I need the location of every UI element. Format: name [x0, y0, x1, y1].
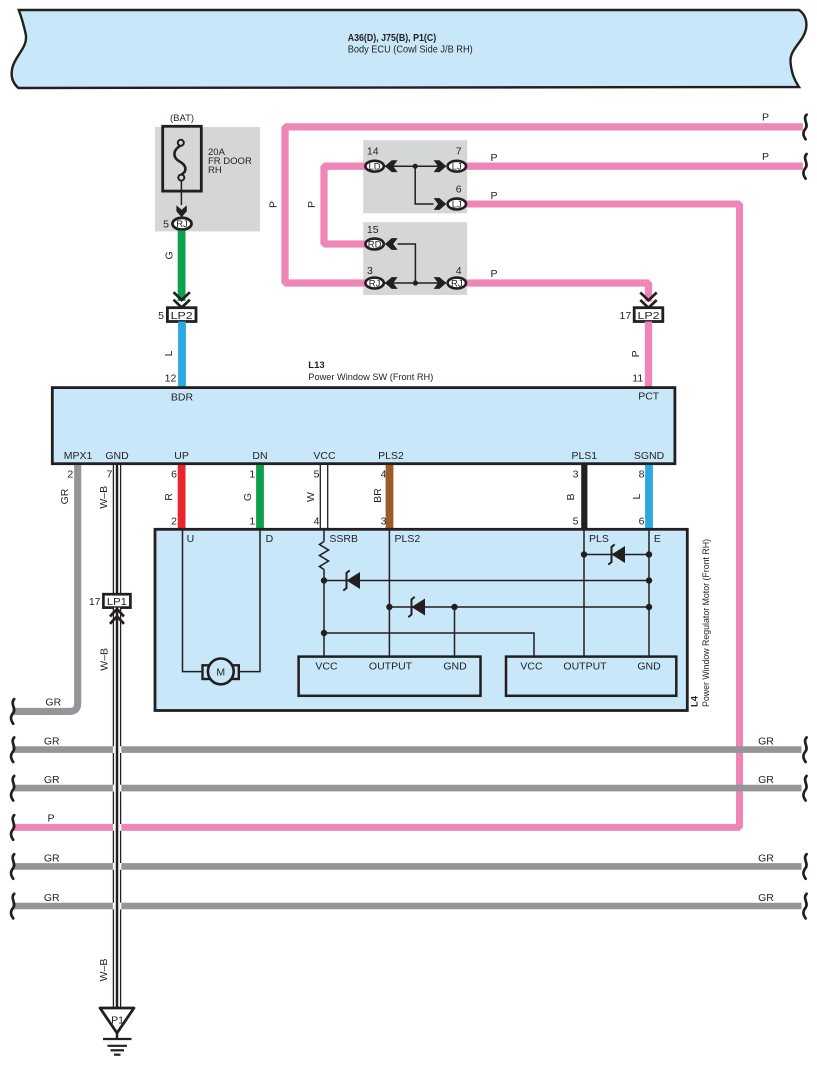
motor M [203, 659, 239, 685]
svg-text:GR: GR [44, 774, 60, 786]
link wire RD15 elbow [398, 244, 416, 283]
svg-text:GND: GND [443, 660, 467, 672]
svg-text:15: 15 [367, 224, 379, 236]
svg-text:8: 8 [639, 468, 645, 480]
svg-text:DN: DN [252, 450, 267, 462]
fuse block shading [155, 127, 260, 231]
svg-text:LJ: LJ [452, 199, 462, 210]
ECU L13 Power Window SW (Front RH) [52, 360, 675, 464]
break symbol P left [11, 815, 14, 840]
pin numbers above motor [171, 516, 645, 528]
svg-text:GR: GR [59, 488, 71, 504]
ground wire GR line 2 [13, 785, 802, 792]
wire W VCC to SSRB [320, 465, 327, 529]
connector LD pin 14 [365, 146, 383, 173]
break symbol GR3 right [803, 854, 806, 879]
svg-text:RJ: RJ [451, 278, 463, 289]
svg-text:E: E [654, 533, 661, 545]
wire PLS2 inner [388, 530, 390, 657]
svg-text:P: P [762, 111, 769, 123]
svg-text:PLS1: PLS1 [571, 450, 597, 462]
svg-text:G: G [163, 251, 175, 259]
zener diode ZD2 [408, 597, 425, 617]
junction block shading lower [363, 222, 467, 295]
arrow into RD15 [385, 238, 398, 250]
junction block shading upper [363, 140, 467, 213]
zener diode ZD3 [608, 544, 625, 564]
svg-text:5: 5 [573, 516, 579, 528]
svg-text:R: R [163, 493, 175, 501]
break symbol GR4 left [11, 894, 14, 919]
driver box 2 [506, 657, 676, 696]
svg-text:Body ECU (Cowl Side J/B RH): Body ECU (Cowl Side J/B RH) [348, 43, 473, 55]
svg-text:5: 5 [314, 468, 320, 480]
svg-text:P: P [490, 152, 497, 164]
link wire junction to LJ6 [415, 166, 433, 204]
svg-text:5: 5 [163, 219, 169, 231]
wire crossing patches W-B over GR/P lines [113, 746, 122, 909]
svg-text:GR: GR [44, 736, 60, 748]
wire U to motor [183, 530, 203, 672]
junction dot GND branch [451, 604, 457, 610]
svg-text:P: P [490, 190, 497, 202]
svg-text:OUTPUT: OUTPUT [563, 660, 607, 672]
svg-text:GR: GR [758, 892, 774, 904]
junction dot A [413, 164, 418, 169]
svg-text:RD: RD [368, 239, 382, 250]
svg-text:D: D [266, 533, 274, 545]
wire P LP2 to PCT pin 11 [645, 322, 652, 389]
svg-text:7: 7 [456, 146, 462, 158]
wire P from LJ6 down right side to left break [13, 204, 740, 827]
svg-text:12: 12 [165, 372, 177, 384]
svg-text:2: 2 [67, 468, 73, 480]
svg-text:L4: L4 [690, 695, 701, 707]
svg-text:U: U [187, 533, 195, 545]
svg-text:RJ: RJ [369, 278, 381, 289]
svg-text:SGND: SGND [634, 450, 665, 462]
svg-text:P: P [762, 151, 769, 163]
svg-text:L: L [163, 350, 175, 356]
wire branch to GND1 [454, 607, 456, 657]
connector LJ pin 7 [448, 146, 466, 173]
wire D to motor [239, 530, 261, 672]
svg-text:17: 17 [620, 310, 632, 322]
junction dot E on PLS line [646, 551, 652, 557]
chevron arrows up into LP1 [110, 609, 124, 624]
arrow into RJ4 [434, 277, 447, 289]
svg-text:Power Window SW (Front RH): Power Window SW (Front RH) [308, 372, 433, 383]
connector LP1 pin 17 [89, 594, 131, 608]
svg-text:PCT: PCT [638, 391, 660, 403]
wire E inner [648, 530, 650, 657]
svg-text:LJ: LJ [452, 162, 462, 173]
svg-text:SSRB: SSRB [329, 533, 358, 545]
arrow into LJ6 [434, 198, 447, 210]
svg-text:PLS2: PLS2 [395, 533, 421, 545]
svg-text:3: 3 [367, 265, 373, 277]
junction dot SSRB-E line [321, 577, 327, 583]
pin numbers below L13 [67, 468, 644, 480]
svg-text:A36(D), J75(B), P1(C): A36(D), J75(B), P1(C) [348, 32, 437, 44]
wire P from LJ7 right to break [465, 163, 803, 170]
svg-text:GR: GR [44, 852, 60, 864]
zener diode ZD1 [343, 570, 360, 590]
svg-text:PLS: PLS [589, 533, 609, 545]
junction dot E on SSRB row [646, 577, 652, 583]
motor unit L4 Power Window Regulator Motor (Front RH) [155, 529, 712, 710]
wire PLS to E horizontal [584, 554, 649, 556]
svg-text:LP2: LP2 [171, 310, 193, 322]
link wire LD14-LJ7 [385, 165, 446, 167]
svg-text:L13: L13 [308, 360, 324, 371]
svg-text:4: 4 [314, 516, 320, 528]
break symbol GR1 right [803, 737, 806, 762]
svg-text:GR: GR [44, 892, 60, 904]
connector RJ pin 4 [448, 265, 466, 290]
svg-text:RH: RH [208, 165, 222, 176]
svg-text:Power Window Regulator Motor (: Power Window Regulator Motor (Front RH) [701, 539, 712, 707]
wire P jumper LD14 to RD15 [324, 166, 366, 244]
link wire RJ3-RJ4 [385, 282, 446, 284]
svg-text:17: 17 [89, 596, 101, 608]
wire PLS2 to E horizontal [389, 606, 649, 608]
svg-text:GND: GND [637, 660, 661, 672]
svg-text:(BAT): (BAT) [170, 113, 194, 124]
break symbol P LJ7 right [803, 154, 806, 179]
driver box 1 [299, 657, 481, 696]
ground wire GR line 1 [13, 746, 802, 753]
svg-text:P: P [306, 201, 318, 208]
svg-text:7: 7 [107, 468, 113, 480]
resistor SSRB [320, 530, 329, 657]
svg-text:VCC: VCC [520, 660, 543, 672]
arrow into LD14 [385, 160, 398, 172]
connector LP2 pin 5 [158, 308, 196, 322]
svg-text:W: W [305, 492, 317, 502]
svg-text:LD: LD [369, 162, 381, 173]
svg-text:2: 2 [171, 516, 177, 528]
connector LJ pin 6 [448, 183, 466, 210]
svg-text:6: 6 [456, 183, 462, 195]
svg-text:L: L [631, 494, 643, 500]
arrow into LJ7 [434, 160, 447, 172]
svg-text:GR: GR [45, 696, 61, 708]
svg-text:GND: GND [105, 450, 129, 462]
junction dot E on PLS2 row [646, 604, 652, 610]
wire R UP to U [178, 465, 186, 529]
junction dot VCC jumper [321, 630, 327, 636]
svg-text:11: 11 [632, 372, 643, 384]
break symbol GR4 right [803, 894, 806, 919]
break symbol P top right [803, 115, 806, 140]
svg-text:14: 14 [367, 146, 379, 158]
svg-text:6: 6 [171, 468, 177, 480]
junction dot B [413, 280, 418, 285]
wire B PLS1 [581, 465, 587, 529]
svg-text:3: 3 [381, 516, 387, 528]
svg-text:P: P [268, 201, 280, 208]
svg-text:1: 1 [249, 468, 255, 480]
svg-text:1: 1 [249, 516, 255, 528]
svg-text:UP: UP [174, 450, 189, 462]
junction dot PLS2 row [386, 604, 392, 610]
break symbol GR1 left [11, 737, 14, 762]
wire W-B LP1 to ground [113, 608, 121, 1008]
svg-text:M: M [216, 667, 225, 679]
svg-text:3: 3 [573, 468, 579, 480]
wire P from RJ4 to connector LP2 [465, 283, 649, 302]
svg-text:P: P [630, 350, 642, 357]
labels GR lines left [44, 736, 60, 904]
break symbol GR3 left [11, 854, 14, 879]
wire GR MPX1 down to break [13, 465, 78, 711]
wire L LP2 to BDR pin 12 [178, 322, 186, 389]
wire G fuse to LP2 [178, 231, 186, 302]
svg-text:OUTPUT: OUTPUT [369, 660, 413, 672]
svg-text:B: B [565, 493, 577, 500]
svg-text:BR: BR [372, 488, 384, 503]
svg-text:VCC: VCC [315, 660, 338, 672]
svg-text:GR: GR [758, 736, 774, 748]
chevron arrows into LP2 left [174, 292, 190, 307]
svg-text:VCC: VCC [313, 450, 336, 462]
svg-text:LP2: LP2 [638, 310, 660, 322]
arrow into RJ3 [385, 277, 398, 289]
svg-text:MPX1: MPX1 [64, 450, 93, 462]
wire G DN to D [256, 465, 264, 529]
chevron arrows into LP2 right [640, 293, 656, 308]
break symbol GR elbow [11, 699, 14, 724]
svg-text:P1: P1 [111, 1015, 124, 1027]
svg-text:P: P [490, 268, 497, 280]
svg-text:W–B: W–B [99, 648, 111, 671]
wire W-B GND to LP1 [113, 465, 121, 594]
junction dot PLS on zener row [581, 551, 587, 557]
svg-text:GR: GR [758, 774, 774, 786]
svg-text:PLS2: PLS2 [378, 450, 404, 462]
svg-text:RJ: RJ [176, 219, 188, 230]
wire VCC jumper to box2 [324, 633, 534, 657]
banner Body ECU (Cowl Side J/B RH) [12, 10, 807, 88]
connector RJ pin 5 [163, 218, 191, 231]
svg-text:GR: GR [758, 852, 774, 864]
connector RJ pin 3 [365, 265, 383, 290]
wire BR PLS2 [386, 465, 394, 529]
ground wire GR line 4 [13, 903, 802, 910]
connector LP2 pin 17 [620, 308, 663, 322]
ground wire GR line 3 [13, 863, 802, 870]
ground P1 [100, 1008, 134, 1055]
svg-text:BDR: BDR [171, 392, 194, 404]
svg-text:G: G [242, 493, 254, 501]
svg-text:W–B: W–B [98, 486, 110, 509]
fuse 20A FR DOOR RH [163, 126, 252, 191]
break symbol GR2 right [803, 776, 806, 801]
wire P from RJ3 up and right to break [285, 127, 803, 283]
svg-text:P: P [47, 812, 54, 824]
labels GR lines right [758, 736, 774, 904]
svg-text:4: 4 [456, 265, 462, 277]
wire L SGND to E [645, 465, 653, 529]
svg-text:W–B: W–B [98, 959, 110, 982]
wire SSRB to E horizontal [324, 580, 649, 582]
wire fuse to RJ5 [180, 181, 182, 205]
wire PLS inner [583, 530, 585, 657]
svg-text:6: 6 [639, 516, 645, 528]
arrow into RJ5 [176, 205, 186, 217]
break symbol GR2 left [11, 776, 14, 801]
connector RD pin 15 [365, 224, 383, 250]
svg-text:5: 5 [158, 310, 164, 322]
svg-text:LP1: LP1 [107, 596, 127, 608]
